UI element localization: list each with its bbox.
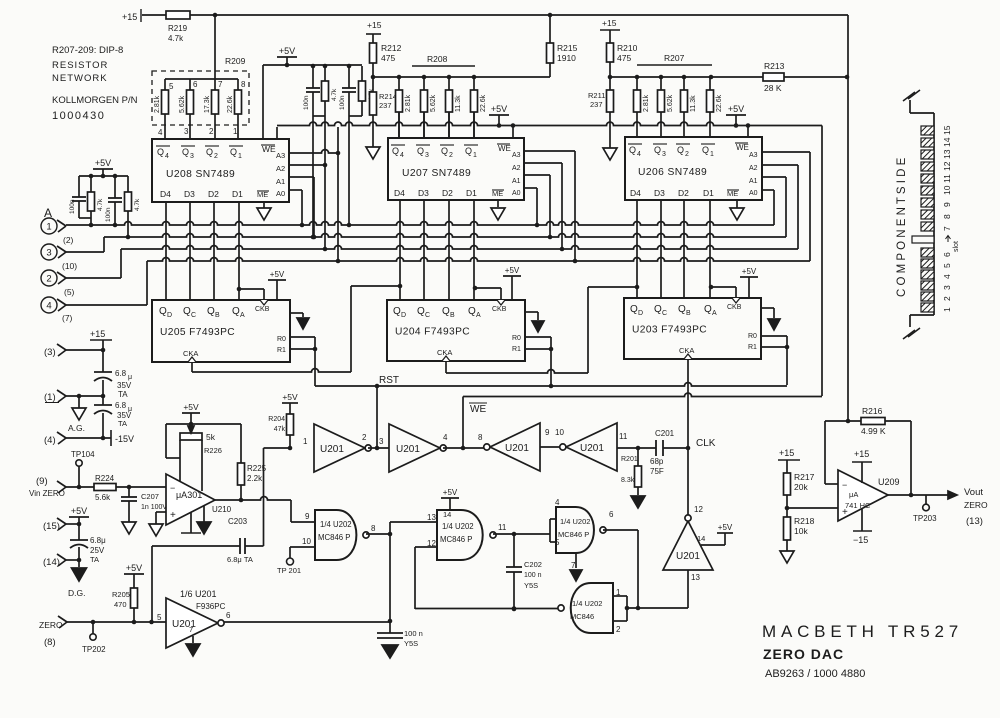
- counter U204 F7493PC: [387, 300, 525, 361]
- inverter U201a: [314, 424, 365, 472]
- resistor R208b 5.62k: [423, 77, 425, 90]
- svg-text:WE: WE: [498, 144, 511, 153]
- wire U205 reset drop: [314, 349, 316, 386]
- wire U206 A2 return: [762, 164, 798, 166]
- svg-text:U201: U201: [580, 443, 604, 454]
- svg-text:6.8: 6.8: [115, 401, 127, 410]
- ground A.G. arrow: [78, 396, 80, 408]
- wire RST to logic: [376, 386, 378, 448]
- svg-text:22.6k: 22.6k: [716, 94, 723, 112]
- svg-text:R215: R215: [557, 43, 578, 53]
- capacitor C203 6.8u TA: [152, 545, 240, 547]
- svg-text:TA: TA: [118, 390, 128, 399]
- svg-text:+15: +15: [854, 449, 869, 459]
- svg-text:100n: 100n: [105, 207, 112, 222]
- svg-text:TP 201: TP 201: [277, 566, 301, 575]
- svg-text:R1: R1: [748, 344, 757, 351]
- edge connector pads 15-7: [921, 126, 934, 135]
- wire nand2 pin12 feedback: [415, 546, 437, 548]
- svg-text:8: 8: [371, 524, 376, 533]
- wire inv1 out to inv2: [368, 447, 389, 449]
- wire ZERO line: [67, 621, 166, 623]
- wire output Vout: [888, 494, 956, 496]
- wire U203.QD tap to U204.CKA: [635, 285, 640, 290]
- svg-text:R210: R210: [617, 43, 638, 53]
- capacitor C201 68p: [655, 440, 657, 456]
- wire A3 tap vertical to line4: [337, 127, 339, 261]
- wire U208 A0 tap: [289, 189, 302, 191]
- svg-text:A2: A2: [512, 165, 521, 172]
- svg-text:D2: D2: [442, 188, 453, 198]
- RAM U206 SN7489: [625, 137, 762, 200]
- ground arrow U208 ME: [263, 202, 265, 208]
- svg-text:+5V: +5V: [718, 523, 733, 532]
- svg-text:Q: Q: [702, 145, 709, 155]
- wire pin3 to +15: [66, 349, 103, 351]
- resistor R211 237: [607, 90, 614, 112]
- svg-text:237: 237: [590, 100, 603, 109]
- svg-text:R226: R226: [204, 446, 222, 455]
- svg-text:D2: D2: [678, 188, 689, 198]
- svg-text:1/4 U202: 1/4 U202: [560, 517, 590, 526]
- svg-text:RST: RST: [379, 375, 399, 386]
- svg-text:+5V: +5V: [443, 488, 458, 497]
- resistor R213 28K: [763, 73, 784, 81]
- wire top rail to right corner: [190, 14, 848, 16]
- resistor R208a 2.81k: [398, 77, 400, 90]
- svg-text:11.3k: 11.3k: [455, 95, 462, 112]
- resistor R215 1910: [549, 15, 551, 43]
- wire U206.D3-U203.QC: [660, 200, 662, 298]
- wire U206 A0 return: [762, 189, 774, 191]
- svg-text:A: A: [240, 312, 245, 319]
- svg-text:Q: Q: [417, 306, 425, 317]
- svg-text:Q: Q: [157, 147, 164, 157]
- svg-text:25V: 25V: [90, 546, 105, 555]
- resistor R208c 11.3k: [448, 77, 450, 90]
- wire U207 A0 drop: [524, 187, 537, 189]
- power +5V at U207 WE: [489, 114, 509, 116]
- capacitor 100n filter A2: [114, 176, 116, 198]
- svg-text:C: C: [662, 310, 667, 317]
- svg-text:Q: Q: [206, 147, 213, 157]
- power -15 opamp: [861, 508, 863, 531]
- svg-text:+5V: +5V: [95, 158, 111, 168]
- wire U204 reset drop: [550, 349, 552, 386]
- svg-text:U208 SN7489: U208 SN7489: [166, 169, 235, 180]
- svg-text:U203 F7493PC: U203 F7493PC: [632, 325, 707, 336]
- svg-text:MC846: MC846: [570, 612, 594, 621]
- wire feedback to minus input: [824, 421, 826, 484]
- nand U202c: [556, 507, 594, 553]
- wire C203 to inv1 input: [263, 448, 265, 546]
- resistor R219 4.7k: [166, 11, 190, 19]
- svg-text:Q: Q: [159, 306, 167, 317]
- ground arrow R211: [609, 112, 611, 148]
- svg-text:1/6 U201: 1/6 U201: [180, 589, 217, 599]
- wire opamp plus input ground: [156, 511, 166, 513]
- power +5V U205: [268, 279, 286, 281]
- svg-text:100n: 100n: [69, 199, 76, 214]
- svg-text:+5V: +5V: [183, 402, 199, 412]
- wire analog line 3: [121, 246, 798, 249]
- svg-text:Q: Q: [393, 306, 401, 317]
- wire inv output to nand1 pin9: [291, 521, 315, 523]
- svg-text:A1: A1: [276, 177, 285, 186]
- svg-text:1/4 U202: 1/4 U202: [572, 599, 602, 608]
- svg-text:Q: Q: [183, 306, 191, 317]
- resistor 4.7k filter A2: [127, 176, 129, 192]
- opamp U209 741HC: [838, 470, 888, 521]
- capacitor 100n filter B2: [348, 66, 350, 88]
- wire R213 to summing line: [784, 76, 848, 78]
- svg-text:+5V: +5V: [505, 266, 520, 275]
- svg-text:(14): (14): [43, 557, 60, 568]
- inverter U201b: [389, 424, 440, 472]
- svg-text:R207: R207: [664, 53, 685, 63]
- svg-text:8: 8: [478, 433, 483, 442]
- svg-text:Q: Q: [442, 306, 450, 317]
- wire R213 link: [711, 76, 763, 78]
- svg-text:D.G.: D.G.: [68, 588, 85, 598]
- svg-text:D2: D2: [208, 189, 219, 199]
- svg-text:D: D: [638, 310, 643, 317]
- svg-text:C201: C201: [655, 429, 675, 438]
- svg-text:3: 3: [662, 151, 666, 158]
- svg-text:μA: μA: [849, 490, 858, 499]
- connector pin 2 (5): [41, 270, 57, 286]
- svg-text:+5V: +5V: [282, 392, 298, 402]
- svg-text:μ: μ: [128, 374, 132, 381]
- svg-text:μA301: μA301: [176, 490, 202, 500]
- svg-text:28 K: 28 K: [764, 83, 782, 93]
- svg-text:TP203: TP203: [913, 514, 937, 523]
- svg-text:5: 5: [942, 263, 952, 268]
- svg-text:1: 1: [303, 437, 308, 446]
- svg-text:2: 2: [616, 625, 621, 634]
- net CLK: [686, 446, 691, 451]
- svg-text:slot: slot: [953, 241, 960, 252]
- wire U207.D2-U204.QB: [448, 200, 450, 300]
- counter U203 F7493PC: [624, 298, 761, 359]
- svg-text:U210: U210: [212, 505, 232, 514]
- svg-text:U207 SN7489: U207 SN7489: [402, 168, 471, 179]
- svg-text:R204: R204: [268, 416, 285, 423]
- wire pin4 riser: [66, 304, 147, 306]
- svg-text:Q: Q: [704, 304, 712, 315]
- resistor R207c 11.3k: [683, 77, 685, 90]
- wire U207.D3-U204.QC: [423, 200, 425, 300]
- svg-text:7: 7: [189, 625, 193, 634]
- connector pin 4 (7): [41, 297, 57, 313]
- svg-text:4: 4: [46, 301, 51, 312]
- svg-text:D3: D3: [418, 188, 429, 198]
- wire summing line vertical: [847, 15, 849, 421]
- svg-text:475: 475: [381, 53, 395, 63]
- svg-text:10: 10: [942, 185, 952, 195]
- wire U207 A2 drop: [524, 162, 562, 164]
- wire pin4 to -15V: [66, 437, 111, 439]
- wire U208.D1-U205.QA: [238, 202, 240, 300]
- svg-text:NETWORK: NETWORK: [52, 73, 108, 84]
- wire analog line 1: [66, 222, 774, 225]
- svg-text:U201: U201: [676, 551, 700, 562]
- counter U205 F7493PC: [152, 300, 290, 362]
- svg-text:4: 4: [165, 153, 169, 160]
- svg-text:5.62k: 5.62k: [430, 94, 437, 112]
- wire U207 A1 drop: [524, 174, 550, 176]
- wire nand1 pin10 to TP201: [290, 546, 315, 548]
- svg-text:D: D: [401, 312, 406, 319]
- wire nand4 node to inverter pin13: [627, 607, 688, 609]
- svg-text:68p: 68p: [650, 457, 664, 466]
- wire U203 QA to CKB: [709, 285, 714, 290]
- wire U203 R0 R1 join: [761, 335, 787, 337]
- wire U208.D4-U205.QD: [165, 202, 167, 300]
- svg-text:A: A: [476, 312, 481, 319]
- svg-text:(3): (3): [44, 347, 56, 358]
- svg-text:Q: Q: [677, 145, 684, 155]
- potentiometer R226 5k: [180, 433, 202, 440]
- svg-text:CKB: CKB: [727, 304, 742, 311]
- svg-text:+5V: +5V: [491, 104, 507, 114]
- nand U202d: [571, 583, 613, 633]
- svg-text:Q: Q: [207, 306, 215, 317]
- svg-text:10: 10: [302, 537, 311, 546]
- power +5V opamp offset: [182, 412, 200, 414]
- resistor R224 5.6k: [94, 484, 116, 491]
- svg-text:MACBETH TR527: MACBETH TR527: [762, 622, 963, 641]
- ground arrow R218: [780, 551, 794, 563]
- wire U207 A3 drop: [524, 150, 575, 152]
- svg-text:+5V: +5V: [71, 506, 87, 516]
- edge connector slot: [912, 236, 934, 243]
- svg-text:8: 8: [942, 214, 952, 219]
- svg-text:CKA: CKA: [679, 346, 694, 355]
- svg-text:A1: A1: [749, 178, 758, 185]
- svg-text:A3: A3: [276, 151, 285, 160]
- capacitor 6.8u 35V TA upper: [102, 350, 104, 372]
- wire U206.D1-U203.QA: [709, 200, 711, 298]
- svg-text:35V: 35V: [117, 381, 132, 390]
- svg-text:13: 13: [427, 513, 436, 522]
- resistor R204 47k: [287, 414, 294, 435]
- svg-text:10k: 10k: [794, 526, 808, 536]
- resistor R225 2.2k: [240, 424, 242, 463]
- svg-text:B: B: [450, 312, 455, 319]
- svg-text:100n: 100n: [339, 95, 346, 110]
- power +5V at U206 WE: [726, 114, 746, 116]
- arrow U205 strobe: [290, 312, 303, 314]
- svg-text:6: 6: [193, 80, 198, 89]
- svg-text:D3: D3: [184, 189, 195, 199]
- wire U208.D2-U205.QB: [213, 202, 215, 300]
- svg-text:1: 1: [473, 152, 477, 159]
- resistor R201 8.3k: [636, 446, 641, 451]
- svg-text:+15: +15: [122, 12, 137, 22]
- wire nand1 output: [366, 533, 390, 535]
- svg-text:RESISTOR: RESISTOR: [52, 60, 108, 71]
- ground arrow opamp: [203, 506, 205, 522]
- svg-text:C: C: [425, 312, 430, 319]
- svg-text:(2): (2): [63, 235, 74, 245]
- resistor R212 475: [372, 34, 374, 43]
- testpoint TP203: [925, 495, 927, 504]
- wire U206 WE pin: [747, 126, 749, 138]
- resistor R209b 5.62k pin6: [189, 79, 191, 90]
- svg-text:C O M P O N E N T S I D E: C O M P O N E N T S I D E: [896, 157, 908, 297]
- resistor R218 10k: [786, 508, 788, 517]
- resistor 4.7k filter A1: [90, 176, 92, 192]
- svg-text:R0: R0: [277, 336, 286, 343]
- svg-text:C: C: [191, 312, 196, 319]
- svg-text:R209: R209: [225, 56, 246, 66]
- arrow U204 strobe: [525, 311, 538, 313]
- wire U204 QA to CKB: [473, 286, 478, 291]
- wire U205 QA to CKB: [237, 287, 242, 292]
- wire CLK to U203 CKA: [687, 359, 689, 448]
- svg-text:2.81k: 2.81k: [405, 94, 412, 112]
- svg-text:11: 11: [498, 523, 507, 532]
- svg-text:14: 14: [697, 534, 705, 543]
- wire filter B2 bottom drop to line1: [349, 115, 362, 117]
- svg-text:(8): (8): [44, 637, 56, 648]
- svg-text:A2: A2: [749, 165, 758, 172]
- svg-text:R0: R0: [748, 333, 757, 340]
- svg-text:WE: WE: [736, 143, 749, 152]
- svg-text:Vin ZERO: Vin ZERO: [29, 489, 65, 498]
- svg-text:5: 5: [157, 613, 162, 622]
- svg-text:1n 100V: 1n 100V: [141, 504, 167, 511]
- svg-text:+: +: [170, 510, 176, 521]
- svg-text:Y5S: Y5S: [404, 639, 418, 648]
- wire U206.D4-U203.QD: [636, 200, 638, 298]
- svg-text:4.7k: 4.7k: [168, 34, 184, 43]
- svg-text:9: 9: [305, 512, 310, 521]
- svg-text:U201: U201: [320, 444, 344, 455]
- capacitor C202 100n Y5S: [513, 534, 515, 567]
- wire R209 top rail: [165, 78, 238, 80]
- svg-text:R219: R219: [168, 24, 188, 33]
- svg-text:2: 2: [449, 152, 453, 159]
- wire nand3 output drop: [603, 529, 638, 531]
- wire filter rail A: [79, 175, 128, 177]
- svg-text:U201: U201: [505, 443, 529, 454]
- resistor R209a 2.81k pin5: [164, 79, 166, 90]
- svg-text:4: 4: [637, 151, 641, 158]
- svg-text:2: 2: [685, 151, 689, 158]
- svg-text:6: 6: [226, 611, 231, 620]
- resistor R216 4.99K feedback: [846, 419, 851, 424]
- svg-text:237: 237: [379, 101, 392, 110]
- svg-text:2: 2: [942, 296, 952, 301]
- wire nand4 input bracket: [613, 595, 627, 597]
- wire A2 tap vertical to line3: [324, 116, 326, 249]
- arrow U203 strobe: [761, 307, 774, 309]
- wire Vin line: [66, 486, 94, 488]
- svg-text:CKA: CKA: [437, 348, 452, 357]
- svg-text:3: 3: [190, 153, 194, 160]
- ground bar opamp: [190, 512, 192, 533]
- svg-text:+15: +15: [779, 448, 794, 458]
- svg-text:741 HC: 741 HC: [845, 501, 871, 510]
- svg-text:B: B: [686, 310, 691, 317]
- wire U207 WE pin: [512, 126, 514, 140]
- svg-text:TA: TA: [118, 419, 127, 428]
- resistor network R209 dashed outline: [152, 71, 249, 125]
- svg-text:Q: Q: [465, 146, 472, 156]
- wire R210 to rail: [609, 62, 611, 90]
- svg-text:−15: −15: [853, 535, 868, 545]
- wires R208 bottoms to U207 pins: [398, 112, 400, 138]
- connector pin 3 (10): [41, 244, 57, 260]
- wire R212 to R214: [372, 63, 374, 92]
- svg-text:4: 4: [443, 433, 448, 442]
- svg-text:+5V: +5V: [279, 46, 295, 56]
- svg-text:Q: Q: [417, 146, 424, 156]
- svg-text:U204 F7493PC: U204 F7493PC: [395, 327, 470, 338]
- resistor 4.7k filter B1: [324, 66, 326, 81]
- wire U207.D1-U204.QA: [473, 200, 475, 300]
- svg-text:22.6k: 22.6k: [480, 94, 487, 112]
- svg-text:+15: +15: [90, 329, 105, 339]
- nand U202a: [315, 510, 356, 560]
- svg-text:2: 2: [214, 153, 218, 160]
- svg-text:+5V: +5V: [742, 267, 757, 276]
- svg-text:475: 475: [617, 53, 631, 63]
- power +5V filter network A: [93, 168, 113, 170]
- RAM U207 SN7489: [388, 138, 524, 200]
- svg-text:(7): (7): [62, 313, 73, 323]
- wire inv3 to inv4: [540, 446, 559, 448]
- wire inverter out to logic: [224, 621, 390, 623]
- svg-text:D: D: [167, 312, 172, 319]
- svg-text:A2: A2: [276, 164, 285, 173]
- svg-text:2.81k: 2.81k: [154, 95, 161, 113]
- svg-text:D1: D1: [232, 189, 243, 199]
- connector pin 1 (2): [41, 218, 57, 234]
- svg-text:6.8: 6.8: [115, 369, 127, 378]
- resistor R208d 22.6k: [473, 77, 475, 90]
- node junction R219/R209: [213, 13, 218, 18]
- wire plus input: [787, 507, 838, 509]
- capacitor 100n Y5S bypass: [389, 534, 391, 633]
- svg-text:5k: 5k: [206, 432, 216, 442]
- wire pin2 riser: [66, 277, 121, 279]
- svg-text:1: 1: [233, 127, 238, 136]
- svg-text:1000430: 1000430: [52, 110, 105, 122]
- svg-text:F936PC: F936PC: [196, 602, 226, 611]
- svg-text:(15): (15): [43, 521, 60, 532]
- svg-text:A: A: [712, 310, 717, 317]
- wire filter A pair bottom: [79, 217, 91, 219]
- svg-text:Q: Q: [441, 146, 448, 156]
- svg-text:1/4 U202: 1/4 U202: [442, 522, 474, 531]
- svg-text:A3: A3: [749, 152, 758, 159]
- svg-text:R214: R214: [379, 92, 397, 101]
- inverter U201e: [663, 521, 713, 570]
- svg-text:3: 3: [379, 437, 384, 446]
- svg-text:R207-209: DIP-8: R207-209: DIP-8: [52, 45, 123, 56]
- svg-text:R205: R205: [112, 590, 130, 599]
- svg-text:CLK: CLK: [696, 438, 716, 449]
- svg-text:9: 9: [942, 202, 952, 207]
- svg-text:ZERO: ZERO: [964, 500, 988, 510]
- svg-text:14: 14: [443, 510, 451, 519]
- testpoint TP202: [92, 622, 94, 634]
- svg-text:2.81k: 2.81k: [643, 94, 650, 112]
- power +5V for U208 WE: [277, 56, 297, 58]
